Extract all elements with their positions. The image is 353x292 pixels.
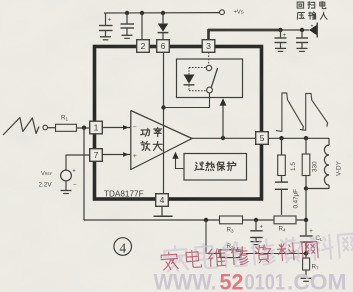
wire flyback rail thin segment	[281, 29, 309, 31]
pin 7 box	[90, 149, 103, 162]
thermal protection box 过热保护	[184, 154, 247, 181]
wire top supply rail to +Vs	[104, 12, 220, 14]
capacitor C1 electrolytic at supply rail	[99, 13, 113, 37]
wire pin 5 output line	[268, 137, 329, 139]
input terminal open circle	[43, 125, 48, 130]
ground bar at pin 4	[154, 215, 173, 217]
resistor R4	[274, 216, 296, 224]
wire input to R1	[48, 127, 56, 129]
deflection waveform sketch 2	[300, 94, 328, 131]
node junction diode wire on rail	[161, 11, 165, 15]
ground below C4	[297, 48, 308, 51]
op-amp power amplifier triangle 功率放大	[131, 111, 192, 170]
capacitor 0.47uF Zobel	[275, 176, 288, 215]
pin 4 box	[156, 194, 169, 207]
label 2.2V	[39, 182, 53, 189]
label TDA8177F	[104, 190, 144, 199]
ground below C5	[251, 242, 262, 245]
flyback voltage input arrow	[309, 23, 317, 38]
label VREF	[41, 171, 53, 177]
label R1	[61, 115, 68, 122]
capacitor CL electrolytic	[300, 220, 314, 254]
resistor R2 lower rail	[220, 250, 241, 258]
pin 2 box	[137, 40, 150, 53]
watermark WWW.520101.COM	[154, 270, 347, 292]
wire rail to pin 2	[141, 13, 143, 40]
diode D1 to pin 6	[158, 13, 169, 40]
wire pin7 to amp non-inverting input	[102, 152, 131, 157]
wire thermal arrow to amplifier	[172, 152, 184, 169]
label 0.47uF	[293, 189, 300, 209]
node junction C3 on flyback rail	[278, 28, 282, 32]
ground below R7	[301, 278, 312, 281]
wire dashed diode bottom to switch	[189, 90, 207, 92]
ground below C3	[275, 48, 286, 51]
terminal +Vs open circle	[220, 10, 225, 15]
ground below C1	[100, 37, 111, 40]
wire R1 to pin 1	[77, 127, 90, 129]
resistor R1	[56, 124, 77, 131]
sawtooth input waveform symbol	[3, 118, 39, 136]
capacitor C3 electrolytic on flyback rail	[275, 30, 287, 48]
capacitor C4 on flyback rail	[296, 30, 308, 48]
resistor R7	[303, 254, 310, 279]
wire pin 4 down	[161, 206, 163, 216]
wire amp output to pin 5	[192, 137, 256, 139]
label R2	[227, 243, 234, 250]
node junction right column top	[304, 218, 308, 222]
label flyback voltage input 回扫电压输入	[297, 1, 327, 19]
wire feedback vertical drop	[83, 128, 85, 220]
wire pin1 to amp inverting input	[102, 125, 131, 130]
node junction lower rail right	[304, 251, 308, 255]
label 330	[312, 161, 319, 172]
wire VREF to ground	[65, 181, 67, 190]
deflection waveform sketch 1	[276, 93, 303, 131]
ground below C2	[122, 35, 133, 38]
node junction C4 on flyback rail	[300, 28, 304, 32]
label R7	[312, 264, 319, 271]
inductor V-DY deflection yoke	[306, 138, 329, 189]
ground below VREF	[61, 191, 72, 194]
switch lever	[211, 68, 217, 87]
flyback generator inner box	[177, 59, 243, 98]
wire VREF to pin 7	[66, 155, 90, 170]
figure number circled 4	[114, 238, 132, 256]
label R3	[227, 227, 234, 234]
pin 3 box	[202, 40, 215, 53]
diode D2 flyback	[184, 68, 195, 91]
IC TDA8177F body rectangle	[95, 47, 262, 200]
wire pin 3 dotted to switch	[208, 52, 210, 65]
node junction 330 branch	[304, 136, 308, 140]
label 1.5	[290, 162, 297, 171]
capacitor C5 to ground	[250, 220, 263, 241]
label CL	[316, 235, 323, 242]
node junction feedback at pin1	[82, 126, 86, 130]
node junction Zobel branch	[279, 136, 283, 140]
node junction feedback drop	[204, 218, 208, 222]
wire dashed diode top to switch	[189, 67, 206, 69]
node junction pin2 wire on rail	[140, 11, 144, 15]
node junction C2 on rail	[125, 11, 129, 15]
pin 6 box	[157, 40, 170, 53]
pin 1 box	[90, 121, 103, 134]
label R4	[279, 226, 286, 233]
wire lower rail	[206, 220, 306, 254]
node junction on pin6 line	[161, 105, 165, 109]
wire 330 bottom to feedback node	[305, 189, 307, 221]
switch contact top circle	[206, 65, 211, 70]
capacitor C2 at supply rail	[121, 13, 135, 35]
wire switch common to pin6 line	[164, 93, 210, 108]
label +Vs	[234, 10, 244, 16]
pin 5 box	[256, 132, 269, 145]
node junction cap C5	[254, 218, 258, 222]
wire pin6 line vertical inside IC	[163, 52, 165, 194]
wire pin 3 to flyback input rail thick segment	[209, 30, 282, 41]
resistor 1.5 Zobel	[278, 138, 286, 176]
watermark crimson 家电维修资料网	[161, 241, 319, 271]
watermark pale large 家电维修资料网	[164, 232, 353, 272]
node junction coil bottom	[304, 186, 308, 190]
wire feedback rail horizontal	[84, 219, 306, 221]
node junction amp output	[221, 136, 225, 140]
resistor 330	[302, 138, 310, 189]
switch contact bottom circle	[207, 87, 213, 93]
voltage source VREF 2.2V	[61, 168, 77, 188]
wire output node arrow into flyback box	[220, 98, 227, 138]
resistor R3	[220, 216, 243, 224]
label V-DY	[336, 160, 343, 176]
